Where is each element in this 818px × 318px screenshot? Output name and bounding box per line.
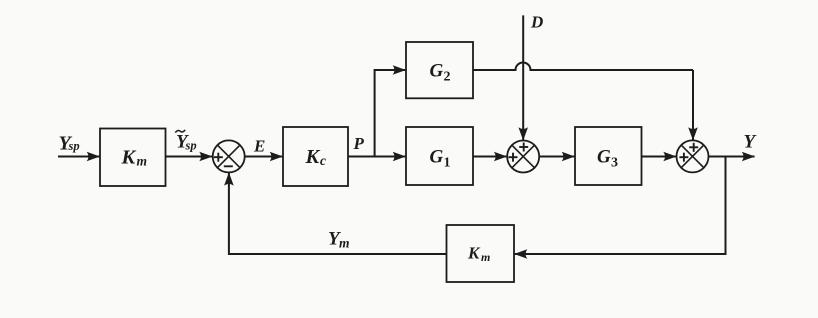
plus sign junction 3 left: [679, 153, 688, 162]
svg-text:K: K: [121, 147, 137, 169]
block G2 (feedforward): [406, 42, 473, 98]
wire Ysp input arrow: [58, 156, 99, 158]
svg-text:sp: sp: [185, 139, 197, 153]
svg-text:sp: sp: [68, 139, 80, 153]
wire junction 1 to Kc: [245, 156, 283, 158]
svg-text:K: K: [467, 244, 481, 263]
wire D disturbance input: [522, 15, 524, 140]
label Ysp: [59, 133, 80, 155]
minus sign junction 1: [224, 165, 233, 167]
wire branch up to G2: [375, 70, 406, 157]
plus sign junction 2 top: [519, 143, 528, 152]
plus sign junction 3 top: [689, 143, 698, 152]
summing junction 3: [677, 140, 709, 172]
block Kc (controller): [283, 127, 348, 186]
label Km bottom block: [467, 244, 490, 265]
label Kc controller block: [305, 146, 327, 168]
label Ym measured output: [328, 229, 350, 251]
label G1 process block: [430, 147, 451, 171]
plus sign junction 2 left: [509, 153, 518, 162]
wire G1 to summing junction 2: [473, 156, 507, 158]
label G2 feedforward block: [430, 61, 451, 85]
wire feedback rail left and up to junction 1: [229, 173, 447, 254]
wire G2 path down into summing junction 3: [692, 70, 694, 140]
block Km (bottom measurement): [447, 225, 515, 282]
svg-text:E: E: [253, 137, 265, 156]
svg-text:m: m: [481, 250, 490, 264]
wire G2 output with hop over D line: [473, 63, 693, 70]
label Ysp tilde (internal setpoint): [175, 130, 196, 153]
svg-text:G: G: [597, 147, 611, 168]
svg-text:m: m: [339, 236, 350, 251]
svg-text:Y: Y: [744, 132, 758, 153]
svg-text:2: 2: [444, 70, 451, 85]
label G3 process block: [597, 147, 618, 171]
summing junction 1 (comparator): [213, 140, 245, 172]
label Km top block: [121, 147, 148, 169]
summing junction 2: [507, 141, 539, 173]
block Km (top measurement): [100, 129, 166, 187]
svg-text:3: 3: [611, 156, 618, 171]
svg-text:m: m: [137, 154, 148, 169]
svg-text:P: P: [353, 134, 365, 153]
wire junction 2 to G3: [539, 156, 574, 158]
wire feedback drop from output: [515, 157, 726, 255]
wire output Y arrow: [709, 156, 755, 158]
svg-text:c: c: [320, 153, 326, 168]
svg-text:G: G: [430, 147, 444, 168]
wire Kc to G1 with branch node: [348, 156, 405, 158]
wire Km to summing junction 1: [166, 156, 213, 158]
svg-text:1: 1: [444, 156, 451, 171]
plus sign junction 1: [214, 153, 223, 162]
block G3 (process): [575, 127, 642, 185]
block G1 (process): [406, 127, 473, 185]
svg-text:K: K: [305, 146, 321, 168]
wire G3 to summing junction 3: [642, 156, 677, 158]
svg-text:G: G: [430, 61, 444, 82]
svg-text:D: D: [530, 13, 543, 32]
